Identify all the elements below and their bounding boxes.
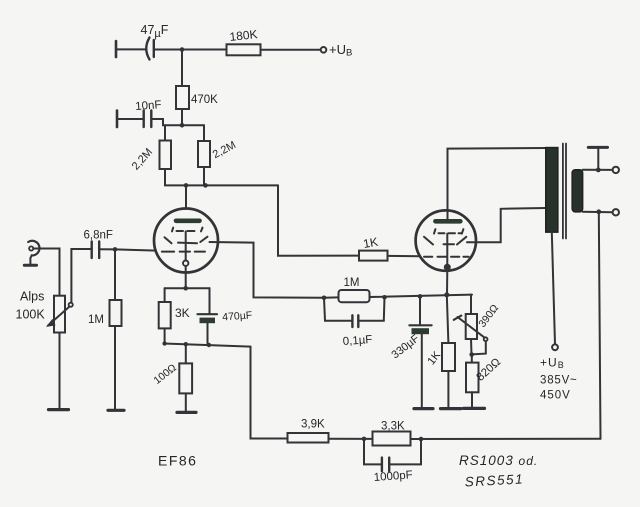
wire	[203, 167, 205, 185]
wire	[447, 371, 449, 408]
svg-text:SRS551: SRS551	[464, 471, 524, 489]
wire	[207, 323, 209, 344]
wire	[115, 249, 157, 250]
capacitor 470uF	[198, 313, 218, 315]
wire cathode bar	[165, 287, 210, 289]
wire wiper to cap	[71, 249, 91, 303]
junction	[322, 296, 327, 301]
svg-text:180K: 180K	[229, 27, 258, 44]
ground	[177, 411, 196, 414]
resistor 3,3K	[373, 432, 411, 446]
svg-text:Alps: Alps	[20, 290, 44, 304]
wire	[370, 295, 473, 297]
svg-text:100K: 100K	[16, 308, 46, 322]
junction	[180, 47, 185, 52]
capacitor 1000pF	[364, 439, 381, 465]
wire	[181, 109, 183, 125]
svg-text:1M: 1M	[344, 277, 360, 289]
resistor 470K	[176, 86, 189, 109]
wire bottom bar	[164, 344, 251, 347]
wire	[100, 248, 115, 250]
tube V1 EF86	[154, 209, 218, 273]
svg-text:385V~: 385V~	[540, 375, 578, 387]
wire feedback drop	[599, 212, 601, 439]
junction	[207, 343, 211, 347]
junction	[184, 342, 188, 346]
jack input	[28, 241, 39, 256]
junction	[184, 183, 189, 188]
wire	[164, 169, 166, 185]
ground	[108, 409, 124, 412]
svg-text:3,3K: 3,3K	[381, 421, 405, 433]
terminal +UB supply	[552, 344, 558, 350]
wire secondary top	[583, 169, 613, 171]
wire	[114, 326, 116, 409]
capacitor 47uF	[146, 38, 149, 60]
junction	[162, 341, 166, 345]
wire	[152, 119, 204, 125]
wire anode to transformer	[448, 148, 546, 220]
potentiometer Alps 100K	[54, 296, 65, 333]
wire	[155, 49, 227, 51]
wire screen tap	[467, 208, 546, 242]
wiper terminal	[69, 303, 73, 307]
svg-text:3,9K: 3,9K	[301, 419, 325, 431]
svg-text:450V: 450V	[540, 390, 571, 402]
svg-text:1M: 1M	[88, 314, 104, 326]
terminal +UB	[321, 47, 327, 53]
resistor 2,2M left	[160, 141, 172, 170]
input terminal top-left	[115, 41, 118, 57]
wire feedback left drop	[251, 347, 288, 439]
wire	[185, 344, 187, 363]
wire	[278, 185, 359, 255]
wire	[164, 288, 166, 302]
capacitor 6,8nF	[90, 242, 92, 259]
wire +UB supply	[552, 232, 555, 344]
svg-text:470µF: 470µF	[222, 309, 253, 323]
junction	[419, 437, 424, 442]
wire	[421, 334, 423, 407]
wire wiper link	[472, 341, 486, 354]
wire	[164, 328, 166, 343]
ground	[464, 407, 485, 410]
wire	[116, 48, 147, 50]
wire	[59, 333, 61, 409]
wire output tube cathode	[446, 270, 448, 295]
wire	[470, 295, 472, 314]
svg-text:EF86: EF86	[158, 453, 197, 469]
svg-text:RS1003 od.: RS1003 od.	[459, 453, 538, 468]
capacitor 330uF	[419, 296, 421, 324]
resistor 3,9K	[288, 433, 329, 443]
resistor 180K	[227, 44, 261, 55]
ground	[49, 408, 69, 411]
transformer secondary	[572, 170, 582, 212]
wire	[117, 118, 143, 120]
wire	[114, 249, 116, 300]
junction	[469, 352, 474, 357]
junction	[596, 168, 601, 173]
svg-text:0,1µF: 0,1µF	[342, 334, 372, 348]
junction	[382, 295, 387, 300]
ground	[414, 407, 433, 410]
wire	[181, 50, 183, 87]
wire	[30, 255, 31, 264]
wire	[329, 438, 373, 440]
wire	[447, 295, 449, 343]
potentiometer 390R	[466, 314, 477, 339]
resistor 1M coupling	[339, 290, 370, 302]
tube V2 RS1003	[416, 210, 476, 270]
wire	[203, 125, 205, 141]
wire cathode rail output stage	[324, 296, 338, 298]
transformer core	[562, 144, 564, 239]
junction	[444, 292, 449, 297]
svg-text:10nF: 10nF	[135, 99, 162, 113]
junction	[418, 294, 423, 299]
ground chassis bar	[588, 146, 607, 149]
wire	[185, 393, 187, 411]
capacitor 0,1uF branch	[324, 298, 352, 321]
wire	[33, 249, 59, 296]
junction	[362, 437, 367, 442]
resistor 820R	[466, 363, 479, 393]
wire	[185, 185, 187, 219]
resistor 1M input	[110, 300, 122, 326]
wire secondary bottom	[583, 211, 613, 213]
wire	[164, 125, 166, 140]
wire EF86 grid2 out	[210, 242, 325, 298]
junction	[203, 183, 208, 188]
wire	[388, 255, 421, 257]
junction	[113, 247, 118, 252]
resistor 100R	[179, 363, 192, 393]
ground	[24, 264, 36, 267]
wire	[471, 392, 473, 407]
junction	[183, 286, 188, 291]
wire	[209, 288, 211, 313]
terminal out bottom	[613, 209, 619, 215]
svg-text:470K: 470K	[191, 94, 218, 106]
resistor 1K cathode	[442, 343, 455, 371]
wire node rail	[165, 184, 278, 186]
junction	[596, 209, 601, 214]
resistor 1K driver	[359, 251, 388, 261]
wire	[411, 438, 601, 440]
svg-text:1K: 1K	[362, 235, 379, 251]
wire	[597, 148, 599, 170]
resistor 3K	[159, 302, 171, 328]
terminal out top	[613, 167, 619, 173]
svg-text:6,8nF: 6,8nF	[84, 230, 113, 242]
resistor 2,2M right	[198, 141, 210, 167]
wire	[470, 339, 473, 354]
capacitor 10nF	[142, 111, 144, 128]
input terminal 10nF	[116, 111, 119, 128]
ground	[441, 407, 462, 410]
wire EF86 cathode	[185, 266, 187, 288]
transformer primary	[546, 148, 558, 233]
wire	[261, 49, 321, 51]
wire	[471, 355, 473, 363]
svg-text:3K: 3K	[175, 306, 190, 320]
junction	[180, 123, 185, 128]
